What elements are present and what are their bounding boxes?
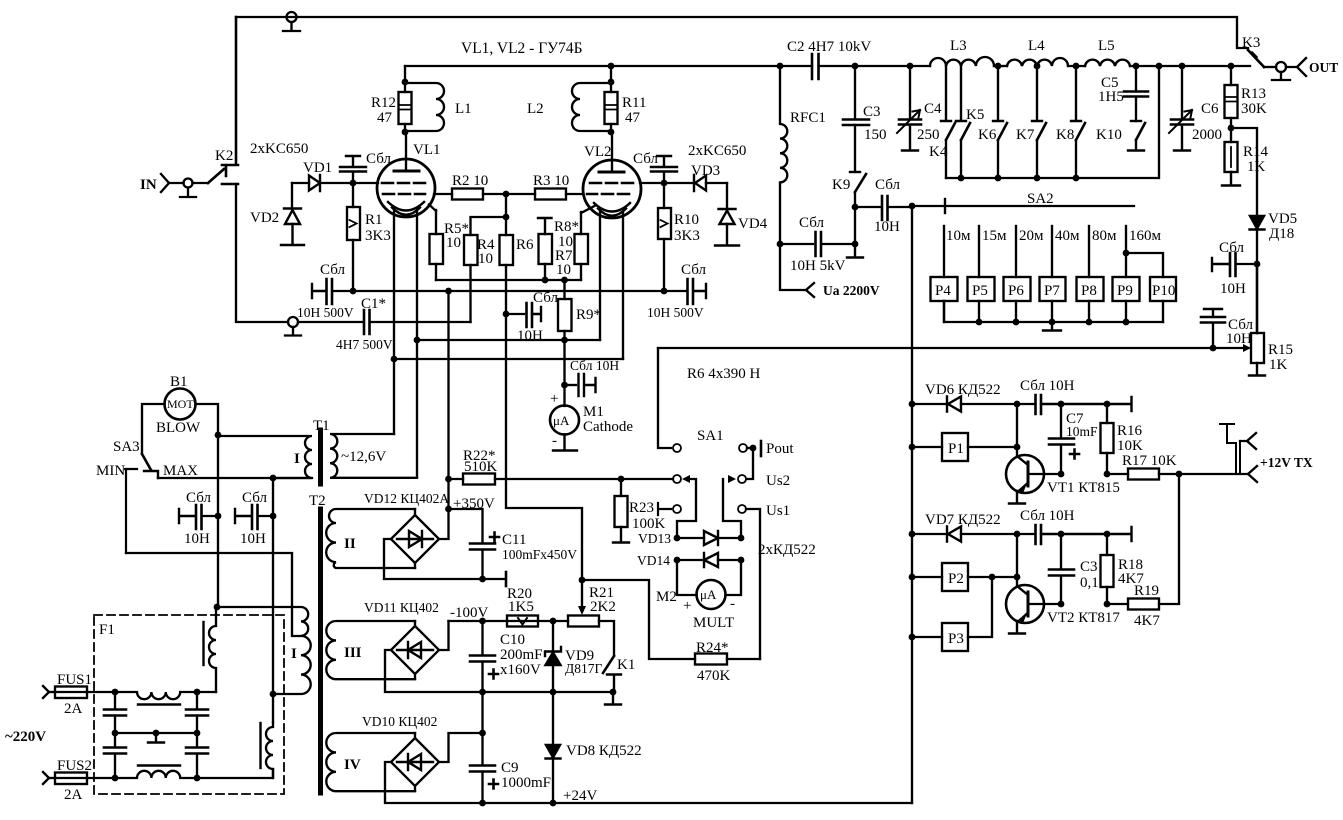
relay coil P5 (968, 277, 995, 322)
band stub 80m (1089, 226, 1117, 277)
svg-text:RFC1: RFC1 (790, 110, 826, 126)
inductor L3 (930, 38, 994, 66)
wire VD12 out (439, 509, 449, 539)
svg-text:K9: K9 (832, 177, 850, 193)
tube VL2 (583, 133, 641, 218)
svg-text:R3 10: R3 10 (533, 173, 569, 189)
node R9 bus (561, 277, 568, 284)
svg-text:P1: P1 (948, 441, 964, 457)
fuse FUS2 (55, 773, 115, 804)
svg-text:Д18: Д18 (1269, 226, 1294, 242)
relay coil P4 (931, 277, 958, 322)
wire R6 bias line (506, 314, 582, 580)
choke F1 winding A (204, 607, 217, 692)
resistor R1 (347, 183, 391, 291)
resistor R14 (1222, 128, 1269, 186)
node anode VL2 (608, 63, 615, 70)
svg-text:R12: R12 (371, 95, 396, 111)
switch SA3 (96, 439, 198, 553)
wire heater line B (394, 358, 623, 360)
svg-text:МОТ: МОТ (167, 397, 194, 411)
svg-text:+24V: +24V (563, 788, 597, 804)
transformer T1 (218, 418, 417, 484)
capacitor C3 (843, 66, 887, 172)
svg-text:10H 500V: 10H 500V (647, 305, 704, 320)
wire R21 tap to R24 (582, 580, 695, 659)
svg-text:VD1: VD1 (303, 160, 332, 176)
terminal common bar (505, 572, 508, 586)
wire heater leg VL1 left (393, 211, 395, 434)
terminal mains L (43, 672, 92, 698)
resistor R11 with L2 (605, 66, 647, 135)
svg-text:Сбл: Сбл (875, 177, 900, 193)
svg-text:VD12 КЦ402А: VD12 КЦ402А (364, 491, 449, 506)
svg-text:K5: K5 (966, 107, 984, 123)
svg-text:30K: 30K (1241, 101, 1267, 117)
svg-text:160м: 160м (1129, 228, 1162, 244)
svg-text:47: 47 (625, 110, 641, 126)
wire cathode-resistor bus (436, 279, 581, 281)
band stub 15m (979, 226, 1007, 277)
node P9 bus (1123, 319, 1130, 326)
svg-text:OUT: OUT (1309, 60, 1338, 75)
capacitor Sbl 10H (VD5) (1212, 240, 1257, 297)
winding T2 IV (326, 733, 415, 791)
capacitor C1* (298, 296, 471, 352)
wire VD11 common (385, 650, 613, 692)
zener VD9 (545, 621, 602, 692)
svg-text:C3: C3 (1080, 559, 1098, 575)
switch SA1 pole1 common (658, 348, 724, 452)
capacitor C11 (449, 509, 578, 579)
node screen bus R4 (503, 214, 510, 221)
node R23 top (618, 476, 625, 483)
wire K bus (946, 66, 1159, 178)
svg-text:4H7 500V: 4H7 500V (336, 337, 393, 352)
diode VD5 (1250, 211, 1298, 264)
wire relay rail (911, 206, 913, 803)
wire screen bus (353, 290, 687, 292)
variable capacitor C6 (1169, 66, 1222, 151)
node K9 bottom (852, 241, 859, 248)
trimmer R21 (568, 580, 616, 627)
node VT2 base line b (1104, 601, 1111, 608)
resistor R4 (464, 194, 506, 267)
winding T2 III (326, 621, 415, 679)
node R13 top (1228, 63, 1235, 70)
relay K3 (1248, 50, 1264, 67)
svg-text:R2 10: R2 10 (452, 173, 488, 189)
svg-text:I: I (294, 451, 300, 467)
svg-text:L1: L1 (455, 101, 472, 117)
svg-text:K1: K1 (617, 657, 635, 673)
svg-text:VT1 КТ815: VT1 КТ815 (1047, 480, 1120, 496)
wire C1 to R4 (469, 265, 471, 322)
node rail P1 (909, 444, 916, 451)
node R1 bus (350, 288, 357, 295)
meter M2 MULT (656, 560, 741, 631)
svg-text:Us1: Us1 (766, 503, 790, 519)
capacitor Sbl 10H (rail A) (179, 490, 221, 547)
svg-text:M1: M1 (583, 404, 604, 420)
svg-text:10: 10 (446, 235, 461, 251)
capacitor Sbl 10H (R6 line) (503, 290, 559, 344)
svg-text:L2: L2 (527, 101, 544, 117)
relay K5 (956, 66, 984, 178)
svg-text:VD10 КЦ402: VD10 КЦ402 (362, 714, 437, 729)
node P8 bus (1086, 319, 1093, 326)
wire M1 feed (563, 340, 565, 406)
diode VD7 (912, 512, 1017, 542)
wire -100V line (449, 620, 569, 622)
potentiometer R15 (1243, 264, 1293, 376)
svg-text:2A: 2A (64, 701, 83, 717)
capacitor Sbl 10H (VT2) (1014, 508, 1132, 544)
svg-text:Сбл: Сбл (533, 290, 558, 306)
resistor R23 (613, 479, 666, 543)
wire anode bus (405, 65, 812, 67)
svg-text:R6: R6 (516, 237, 534, 253)
svg-text:R6 4x390 H: R6 4x390 H (687, 366, 761, 382)
ground K9 (847, 244, 863, 258)
choke F1 winding B (261, 722, 274, 778)
capacitor C10 (470, 621, 543, 692)
svg-text:F1: F1 (99, 622, 115, 638)
wire heater line A (417, 339, 600, 341)
wire VD10 common (385, 762, 912, 803)
band stub 10m (944, 226, 971, 277)
node choke2-rail (194, 775, 201, 782)
node VT2 feed (1014, 574, 1021, 581)
svg-text:10м: 10м (946, 228, 971, 244)
svg-text:3K3: 3K3 (365, 228, 391, 244)
svg-text:1K5: 1K5 (508, 599, 534, 615)
wire OUT stub (1264, 66, 1276, 68)
capacitor C2 (787, 39, 930, 79)
svg-text:2xКД522: 2xКД522 (758, 542, 816, 558)
variable resistor R20 (507, 586, 538, 627)
capacitor Sbl 10H (rail B) (235, 490, 276, 547)
capacitor F1 C-b (104, 733, 126, 778)
relay K9 (832, 172, 866, 207)
svg-text:47: 47 (377, 110, 393, 126)
resistor R19 (1107, 474, 1179, 629)
terminal Ua 2200V (780, 244, 880, 298)
relay contact K1 (599, 621, 635, 692)
node heater B (391, 356, 398, 363)
node rail VD6 (909, 401, 916, 408)
node FUS2-cap (112, 775, 119, 782)
bridge VD12 (364, 491, 449, 568)
svg-text:Сбл 10H: Сбл 10H (570, 358, 619, 373)
capacitor F1 C-c (186, 692, 208, 733)
resistor R3 (506, 173, 583, 200)
svg-text:VD4: VD4 (738, 216, 768, 232)
svg-text:VD11 КЦ402: VD11 КЦ402 (364, 600, 439, 615)
wire heater leg VL1 right (416, 210, 418, 477)
node C9 top (479, 730, 486, 737)
svg-text:100mFx450V: 100mFx450V (502, 547, 577, 562)
svg-text:R9*: R9* (576, 307, 601, 323)
wire F1 cap mid (115, 732, 197, 734)
svg-text:R13: R13 (1241, 86, 1266, 102)
svg-text:III: III (344, 645, 362, 661)
relay K6 (978, 66, 1007, 178)
capacitor Sbl 10H (M1) (565, 358, 620, 396)
resistor R24* (695, 640, 760, 684)
zener VD2 (250, 183, 304, 245)
capacitor C5 (1098, 63, 1148, 121)
choke RFC1 (780, 66, 826, 244)
svg-text:10: 10 (478, 251, 493, 267)
svg-text:250: 250 (917, 127, 940, 143)
terminal mains N (43, 758, 92, 784)
svg-text:C10: C10 (500, 632, 525, 648)
node R13-R14 (1228, 125, 1235, 132)
svg-text:MAX: MAX (163, 463, 198, 479)
inductor L2 (527, 83, 611, 131)
node T1 tap (270, 475, 277, 482)
choke F1 top (115, 692, 197, 705)
svg-text:P6: P6 (1008, 283, 1024, 299)
node B1-T1 (215, 432, 222, 439)
node VD13 left (674, 535, 681, 542)
node P7 bus (1049, 319, 1056, 326)
terminal OUT arrow (1286, 58, 1306, 76)
wire grid1 VL2 (640, 182, 664, 184)
node FUS1-cap (112, 689, 119, 696)
node VD9 top (550, 689, 557, 696)
node heater A (414, 337, 421, 344)
relay coil P6 (1004, 277, 1031, 322)
node rail P3 (909, 634, 916, 641)
relay coil P3 (912, 577, 992, 651)
node K6 bus (995, 175, 1002, 182)
svg-text:80м: 80м (1092, 228, 1117, 244)
svg-text:+: + (683, 598, 691, 614)
node grid1 VL2 (661, 180, 668, 187)
svg-text:BLOW: BLOW (156, 420, 201, 436)
wire L3-L4 (994, 65, 1007, 67)
wire VT1-VT2 rail (1016, 534, 1018, 577)
node VT1 base feed (1014, 444, 1021, 451)
svg-text:Сбл: Сбл (1219, 240, 1244, 256)
svg-text:Сбл 10H: Сбл 10H (1020, 378, 1075, 394)
relay coil P2 (912, 563, 1017, 591)
contact SA1 pole1 set (673, 475, 696, 538)
winding T2 primary (217, 607, 311, 694)
svg-text:P2: P2 (948, 571, 964, 587)
resistor R22* (445, 448, 673, 485)
terminal +12V TX (1220, 424, 1313, 482)
diode VD13 (638, 531, 741, 546)
wire grid1 VL1 (353, 182, 378, 184)
node +350V bus (445, 288, 452, 295)
node VD14 left (674, 557, 681, 564)
capacitor C9 (470, 692, 551, 803)
node R2-R3 (503, 191, 510, 198)
svg-text:~220V: ~220V (5, 729, 46, 745)
svg-text:P10: P10 (1152, 283, 1175, 299)
node T2 primary top (214, 604, 221, 611)
zener VD4 (715, 183, 768, 246)
resistor R9* (558, 280, 601, 340)
svg-text:C9: C9 (501, 760, 519, 776)
zener VD3 (664, 143, 746, 191)
svg-text:15м: 15м (982, 228, 1007, 244)
svg-text:10K: 10K (1117, 438, 1143, 454)
svg-text:Сбл 10H: Сбл 10H (1020, 508, 1075, 524)
svg-text:10H 5kV: 10H 5kV (790, 258, 846, 274)
node choke-rail (194, 689, 201, 696)
node K8 bus (1073, 175, 1080, 182)
capacitor Sbl (grid right) (633, 151, 677, 183)
node K9-Sbl (852, 204, 859, 211)
svg-text:VD13: VD13 (638, 531, 671, 546)
svg-text:VL1, VL2 - ГУ74Б: VL1, VL2 - ГУ74Б (461, 40, 583, 57)
wire heater leg VL2 right (622, 212, 624, 359)
svg-text:R16: R16 (1117, 423, 1143, 439)
capacitor Sbl 10H 5kV (780, 215, 855, 274)
node P6 bus (1013, 319, 1020, 326)
node Sbl-R15 (1210, 345, 1217, 352)
ground terminal IN (180, 179, 196, 198)
svg-text:Pout: Pout (766, 441, 794, 457)
svg-text:VD5: VD5 (1268, 211, 1297, 227)
node T2 primary bottom (270, 691, 277, 698)
resistor R16 (1101, 404, 1144, 474)
contact R23 stub (658, 503, 681, 515)
svg-text:150: 150 (864, 127, 887, 143)
node VT1 base line b (1104, 471, 1111, 478)
svg-text:μA: μA (700, 587, 717, 602)
svg-text:C1*: C1* (361, 296, 386, 312)
svg-text:μA: μA (553, 413, 570, 428)
svg-text:Сбл: Сбл (681, 262, 706, 278)
svg-text:R15: R15 (1268, 342, 1293, 358)
inductor L4 (1007, 38, 1068, 66)
diode VD6 (912, 382, 1017, 412)
filter box F1 (94, 615, 284, 794)
svg-text:R1: R1 (365, 212, 383, 228)
motor B1 (142, 374, 218, 454)
svg-text:2000: 2000 (1192, 127, 1222, 143)
wire FUS2 line to rail B (197, 769, 273, 778)
svg-text:B1: B1 (170, 374, 188, 390)
svg-text:K3: K3 (1242, 35, 1260, 51)
svg-text:Cathode: Cathode (583, 419, 633, 435)
svg-text:R17 10K: R17 10K (1122, 453, 1177, 469)
inductor L1 (405, 83, 472, 131)
node C3 top (1058, 531, 1065, 538)
svg-text:M2: M2 (656, 589, 677, 605)
band stub 20m (1016, 226, 1044, 277)
node VT2 base line a (1058, 601, 1065, 608)
node Sbl M1 (561, 382, 568, 389)
svg-text:10H: 10H (517, 328, 543, 344)
node Ua junction (777, 241, 784, 248)
node C4 top (907, 63, 914, 70)
svg-text:P7: P7 (1044, 283, 1060, 299)
fuse FUS1 (55, 687, 115, 718)
svg-text:10H: 10H (184, 531, 210, 547)
capacitor C3 (1049, 534, 1099, 604)
node K5 bus (958, 175, 965, 182)
resistor R5* (429, 205, 469, 281)
node RFC1 top (777, 63, 784, 70)
node R8 bus (542, 277, 549, 284)
svg-text:MULT: MULT (693, 615, 734, 631)
ground K1 (605, 692, 621, 705)
wire left rail A (217, 435, 219, 607)
wire VD11 out (439, 621, 449, 650)
svg-text:SA2: SA2 (1027, 191, 1054, 207)
svg-text:VD14: VD14 (637, 553, 670, 568)
svg-text:P3: P3 (948, 631, 964, 647)
relay K10 (1096, 121, 1145, 151)
node K7 bus (1034, 175, 1041, 182)
svg-text:P5: P5 (972, 283, 988, 299)
resistor R13 (1225, 66, 1268, 128)
ground F1 (148, 730, 164, 743)
variable capacitor C4 (897, 66, 942, 151)
svg-text:x160V: x160V (500, 662, 541, 678)
wire K2 to C1 line (236, 184, 288, 322)
node R20-R21 (550, 618, 557, 625)
relay coil P7 (1040, 277, 1066, 322)
svg-text:R8*: R8* (554, 219, 579, 235)
node +350V (445, 506, 452, 513)
resistor R8* (538, 218, 579, 280)
wire heater leg VL2 left (599, 212, 601, 340)
svg-text:Us2: Us2 (766, 473, 790, 489)
svg-text:470K: 470K (697, 668, 731, 684)
node K bus riser (1156, 63, 1163, 70)
wire R13 to VD5 (1231, 128, 1257, 216)
svg-text:3K3: 3K3 (674, 228, 700, 244)
node C10 bottom (479, 689, 486, 696)
wire +350V rail (447, 291, 449, 509)
svg-text:Д817Г: Д817Г (565, 661, 602, 676)
wire P9-P10 link (1123, 250, 1163, 277)
svg-text:R23: R23 (629, 500, 654, 516)
svg-text:T2: T2 (309, 493, 326, 509)
svg-text:0,1: 0,1 (1080, 575, 1099, 591)
svg-text:VD6 КД522: VD6 КД522 (925, 382, 1001, 398)
transistor VT2 KT817 (1006, 577, 1120, 634)
svg-text:SA1: SA1 (697, 428, 724, 444)
inductor L5 (1085, 38, 1130, 66)
capacitor Sbl 10H (R15) (1201, 309, 1253, 348)
node C11 bottom (479, 576, 486, 583)
svg-text:10H: 10H (1220, 281, 1246, 297)
resistor R7 (555, 206, 595, 280)
resistor R6 (500, 217, 535, 314)
node R18 top (1104, 531, 1111, 538)
svg-text:20м: 20м (1019, 228, 1044, 244)
relay coil P8 (1077, 277, 1104, 322)
resistor R2 (434, 173, 506, 200)
svg-text:10: 10 (556, 262, 571, 278)
capacitor C7 (1049, 404, 1098, 474)
node K1 ground (610, 689, 617, 696)
node F1 mid-a (112, 730, 119, 737)
svg-text:IV: IV (344, 757, 361, 773)
wire K9 down (854, 207, 856, 244)
svg-text:Сбл: Сбл (242, 490, 267, 506)
terminal IN arrow (140, 174, 184, 193)
capacitor Sbl 10H 500V right (647, 262, 706, 320)
